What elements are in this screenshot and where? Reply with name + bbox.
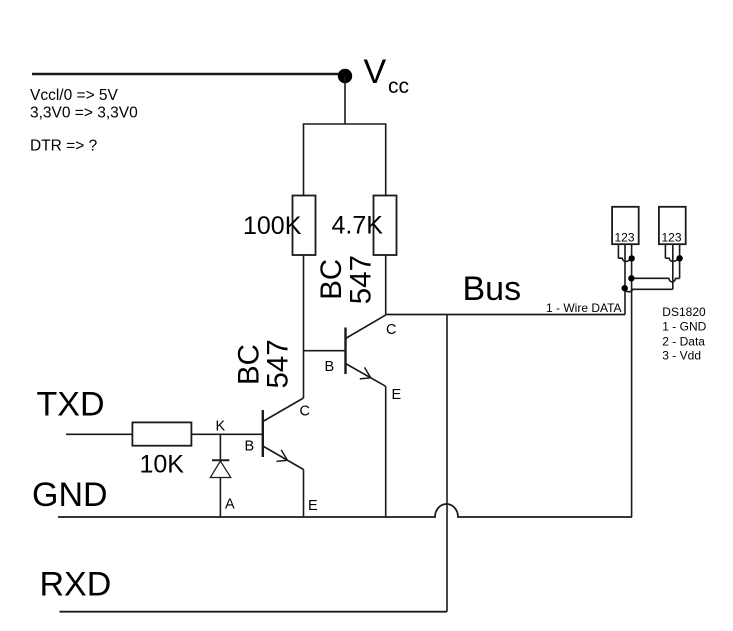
wire sensor ground riser [631,244,633,517]
resistor R1 100K [293,196,316,256]
svg-text:C: C [300,404,310,420]
diode D1 [210,434,231,517]
label Q1 type BC 547 [233,339,295,388]
svg-text:10K: 10K [140,450,185,478]
svg-text:cc: cc [388,75,409,98]
svg-text:A: A [225,497,235,513]
svg-text:123: 123 [662,231,682,245]
resistor R3 10K [132,422,191,445]
svg-text:V: V [364,53,387,91]
svg-text:TXD: TXD [37,386,105,424]
svg-text:DTR => ?: DTR => ? [30,138,98,155]
wire Vcc top rail [32,73,345,75]
sensor U3 DS1820 right package [659,207,686,289]
svg-text:B: B [245,439,255,455]
wire Q2 base [304,350,346,352]
wire sensor data link [625,288,673,292]
wire Vcc stem [344,76,346,124]
node junction dot data link [622,285,628,291]
wire RXD line [60,611,448,613]
svg-text:3 - Vdd: 3 - Vdd [662,349,701,363]
wire Q2 emitter to GND [385,386,387,517]
wire R3 to Q1 base [191,433,262,435]
wire GND rail with hop [58,504,632,517]
node junction dot gnd link [628,275,634,281]
label power annotation [30,87,138,155]
wire resistor feed top [304,124,386,196]
transistor Q2 BC547 [346,315,386,386]
transistor Q1 BC547 [263,398,304,470]
svg-text:123: 123 [615,231,635,245]
svg-text:Bus: Bus [463,270,522,308]
svg-text:100K: 100K [243,212,302,240]
wire R2 bottom to bus node [385,255,387,315]
sensor U2 DS1820 left package [612,207,639,315]
label Q2 type BC 547 [315,255,378,304]
svg-text:BC: BC [315,259,348,300]
wire Bus line [386,314,625,316]
svg-text:RXD: RXD [40,566,112,604]
node junction dot right sensor gnd [676,255,682,261]
svg-text:K: K [216,419,226,435]
wire RXD riser [446,315,448,612]
svg-text:3,3V0 => 3,3V0: 3,3V0 => 3,3V0 [30,105,138,122]
svg-text:Vccl/0 => 5V: Vccl/0 => 5V [30,87,119,104]
svg-text:1 - Wire DATA: 1 - Wire DATA [546,301,622,315]
wire Q1 emitter to GND [303,470,305,518]
wire TXD input [66,433,132,435]
svg-text:DS1820: DS1820 [662,305,706,319]
wire right sensor ground drop [679,258,681,278]
svg-text:E: E [392,387,402,403]
svg-text:547: 547 [345,255,378,304]
node junction dot sensor gnd top [629,255,635,261]
resistor R2 4.7K [374,196,397,256]
svg-text:GND: GND [32,476,108,514]
svg-text:4.7K: 4.7K [332,212,384,240]
label Vcc [364,53,410,98]
svg-text:2 - Data: 2 - Data [662,334,705,348]
node Vcc junction dot [338,69,352,83]
svg-text:1 - GND: 1 - GND [662,320,706,334]
svg-text:C: C [386,322,396,338]
svg-text:547: 547 [262,339,295,388]
wire sensor ground link [632,278,680,282]
svg-text:B: B [325,359,335,375]
label DS1820 pinout notes [662,305,706,363]
svg-text:E: E [308,498,318,514]
wire R1 bottom to Q1 collector [303,255,305,398]
